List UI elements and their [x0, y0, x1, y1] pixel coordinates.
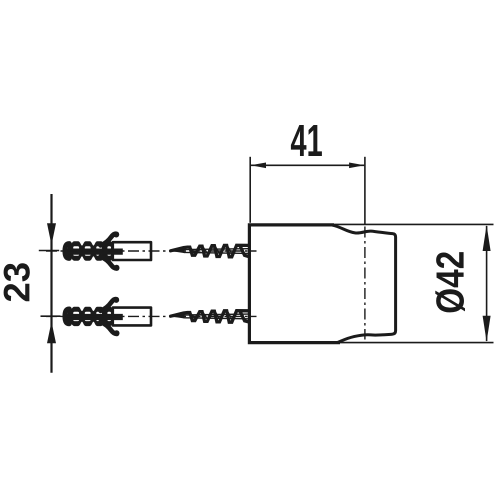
tick 23 upper	[39, 250, 59, 252]
extension line 41 right	[364, 157, 366, 224]
center line lower fastener	[46, 315, 257, 317]
arrow Ø42 bottom	[483, 316, 491, 342]
label Ø42	[435, 252, 465, 312]
arrow 41 left	[251, 163, 266, 169]
bracket body right reduced profile with break waves	[333, 225, 396, 342]
dimension line Ø42	[486, 226, 488, 341]
wall plug upper	[65, 232, 151, 271]
screw lower	[170, 311, 248, 323]
arrow 23 upper	[47, 223, 56, 245]
screw upper	[170, 245, 248, 256]
center line upper fastener	[46, 250, 257, 252]
label 23	[4, 263, 30, 301]
center line vertical (bracket)	[364, 227, 366, 340]
extension line bottom (Ø42)	[339, 342, 494, 344]
label 41	[291, 125, 322, 156]
arrow 41 right	[349, 163, 364, 169]
tick 23 lower	[41, 315, 61, 317]
bracket body outer profile	[249, 225, 340, 343]
arrow 23 lower	[47, 322, 56, 344]
extension line top (Ø42)	[332, 223, 494, 225]
dimension line 23 vertical	[50, 194, 52, 373]
arrow Ø42 top	[483, 225, 491, 251]
extension line 41 left	[249, 157, 251, 223]
wall plug lower	[65, 297, 151, 336]
dimension line 41	[251, 164, 364, 166]
